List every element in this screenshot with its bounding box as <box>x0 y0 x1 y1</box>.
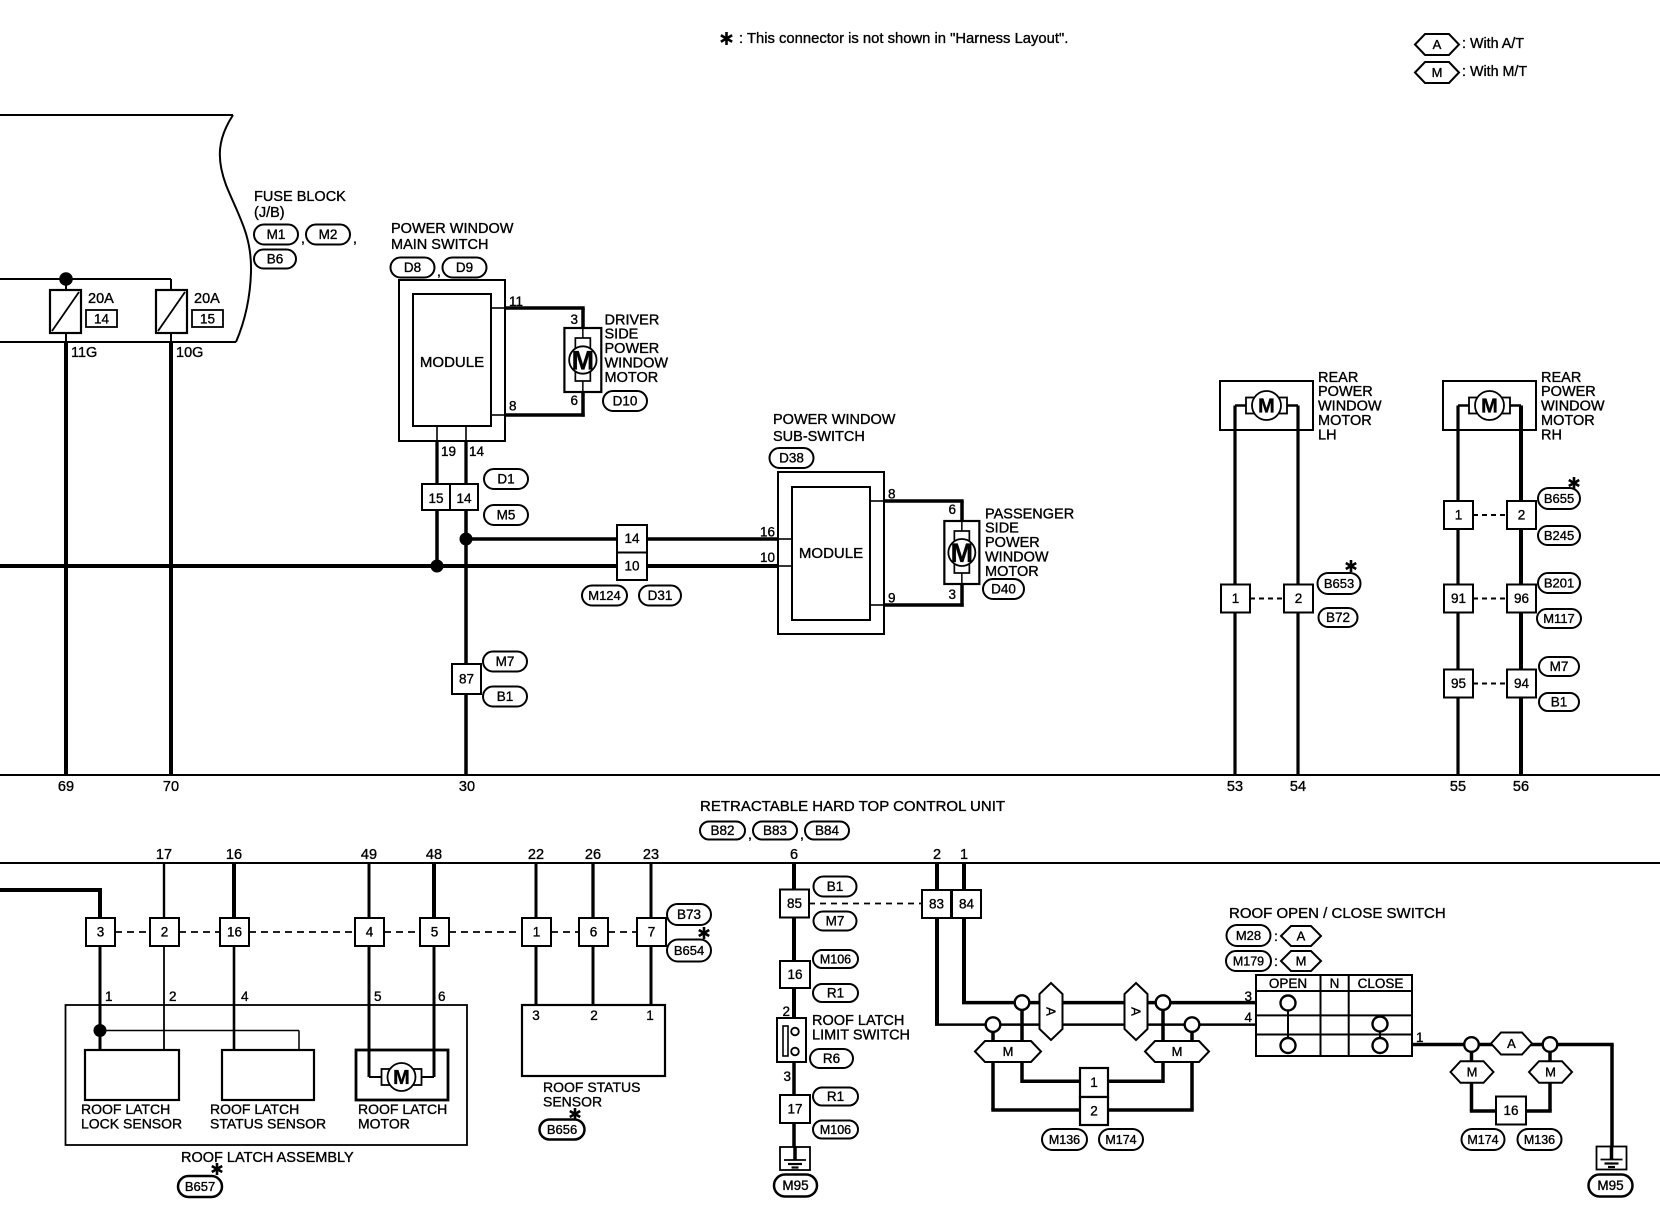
svg-text:B83: B83 <box>763 823 787 838</box>
svg-text:ROOF LATCH ASSEMBLY: ROOF LATCH ASSEMBLY <box>181 1150 354 1166</box>
svg-text:R1: R1 <box>827 986 844 1001</box>
svg-text:D8: D8 <box>404 260 421 275</box>
svg-text:2: 2 <box>1518 508 1526 523</box>
svg-text:M7: M7 <box>826 914 845 929</box>
svg-text:M: M <box>1432 65 1443 80</box>
svg-text:1: 1 <box>1455 508 1463 523</box>
svg-text:N: N <box>1330 976 1340 991</box>
svg-text:M28: M28 <box>1236 928 1261 943</box>
svg-text:LIMIT SWITCH: LIMIT SWITCH <box>812 1028 910 1044</box>
svg-text:M: M <box>1467 1065 1478 1080</box>
svg-text:1: 1 <box>1232 591 1240 606</box>
svg-text:6: 6 <box>438 989 446 1004</box>
svg-text:M: M <box>393 1067 410 1089</box>
svg-text:5: 5 <box>431 925 439 940</box>
svg-text:,: , <box>353 230 357 246</box>
svg-text:2: 2 <box>169 989 177 1004</box>
svg-text:M: M <box>1003 1044 1014 1059</box>
svg-text:M136: M136 <box>1524 1133 1555 1147</box>
svg-text:RH: RH <box>1541 427 1562 443</box>
svg-text:95: 95 <box>1451 676 1466 691</box>
svg-text:23: 23 <box>643 847 659 863</box>
svg-text:15: 15 <box>428 491 443 506</box>
svg-text:17: 17 <box>787 1102 802 1117</box>
svg-text:30: 30 <box>459 779 475 795</box>
svg-text:14: 14 <box>94 312 110 327</box>
svg-text:20A: 20A <box>194 291 220 307</box>
svg-text:4: 4 <box>241 989 249 1004</box>
svg-text:M: M <box>1258 396 1275 418</box>
svg-text:16: 16 <box>760 525 775 540</box>
svg-text:ROOF OPEN / CLOSE SWITCH: ROOF OPEN / CLOSE SWITCH <box>1229 905 1446 922</box>
svg-text:A: A <box>1297 929 1306 944</box>
svg-text:M2: M2 <box>319 227 338 242</box>
svg-text:M95: M95 <box>1597 1178 1623 1193</box>
svg-text:LH: LH <box>1318 427 1337 443</box>
svg-text:M: M <box>1172 1044 1183 1059</box>
svg-text:6: 6 <box>948 502 956 517</box>
svg-text:49: 49 <box>361 847 377 863</box>
svg-text:M174: M174 <box>1105 1133 1136 1147</box>
svg-text:MAIN SWITCH: MAIN SWITCH <box>391 237 488 253</box>
svg-text:2: 2 <box>1295 591 1303 606</box>
svg-text:26: 26 <box>585 847 601 863</box>
svg-text:POWER WINDOW: POWER WINDOW <box>391 221 514 237</box>
svg-text:B654: B654 <box>674 943 704 958</box>
svg-text:D38: D38 <box>779 451 804 466</box>
svg-text:16: 16 <box>226 847 242 863</box>
svg-text:10: 10 <box>760 550 775 565</box>
svg-text:LOCK SENSOR: LOCK SENSOR <box>81 1116 182 1132</box>
svg-text:A: A <box>1043 1007 1058 1016</box>
svg-text:1: 1 <box>960 847 968 863</box>
svg-text:1: 1 <box>1090 1075 1098 1090</box>
svg-text:POWER WINDOW: POWER WINDOW <box>773 412 896 428</box>
svg-text:8: 8 <box>509 399 517 414</box>
svg-text:D1: D1 <box>497 472 514 487</box>
svg-text:ROOF LATCH: ROOF LATCH <box>358 1101 447 1117</box>
svg-text:1: 1 <box>533 925 541 940</box>
svg-text:CLOSE: CLOSE <box>1358 976 1404 991</box>
svg-text:R6: R6 <box>823 1051 840 1066</box>
svg-text:STATUS SENSOR: STATUS SENSOR <box>210 1116 326 1132</box>
svg-text:M: M <box>951 538 974 568</box>
svg-text:M7: M7 <box>496 654 515 669</box>
svg-text:17: 17 <box>156 847 172 863</box>
svg-text:M174: M174 <box>1467 1133 1498 1147</box>
svg-text:11G: 11G <box>71 345 97 361</box>
svg-text:(J/B): (J/B) <box>254 205 285 221</box>
svg-text:6: 6 <box>590 925 598 940</box>
svg-text::: : <box>1274 953 1278 969</box>
svg-text:M179: M179 <box>1233 954 1264 968</box>
svg-text:,: , <box>301 230 305 246</box>
svg-text:M124: M124 <box>588 588 621 603</box>
svg-text:B656: B656 <box>547 1122 577 1137</box>
svg-text:B73: B73 <box>677 907 701 922</box>
svg-text:SENSOR: SENSOR <box>543 1094 602 1110</box>
svg-text:B72: B72 <box>1326 610 1350 625</box>
svg-text:A: A <box>1128 1007 1143 1016</box>
svg-text:D31: D31 <box>648 588 673 603</box>
svg-text:MODULE: MODULE <box>420 354 484 371</box>
svg-text:D40: D40 <box>991 582 1016 597</box>
svg-text:85: 85 <box>787 896 802 911</box>
svg-text:1: 1 <box>105 989 113 1004</box>
svg-text:14: 14 <box>624 531 640 546</box>
svg-text:FUSE BLOCK: FUSE BLOCK <box>254 189 346 205</box>
svg-text:3: 3 <box>1244 989 1252 1004</box>
svg-text:M: M <box>572 346 595 376</box>
svg-text:B82: B82 <box>710 823 734 838</box>
svg-text:4: 4 <box>366 925 374 940</box>
svg-text:2: 2 <box>1090 1104 1098 1119</box>
svg-text:5: 5 <box>374 989 382 1004</box>
svg-text:B245: B245 <box>1544 528 1574 543</box>
svg-text:A: A <box>1507 1036 1516 1051</box>
svg-text:70: 70 <box>163 779 179 795</box>
svg-text:B201: B201 <box>1544 576 1574 591</box>
svg-text:2: 2 <box>161 925 169 940</box>
svg-text:MOTOR: MOTOR <box>605 370 659 386</box>
svg-text:84: 84 <box>959 897 975 912</box>
svg-text:M136: M136 <box>1049 1133 1080 1147</box>
svg-text:D10: D10 <box>613 394 638 409</box>
svg-text:16: 16 <box>1503 1103 1518 1118</box>
svg-text:MODULE: MODULE <box>799 545 863 562</box>
svg-text:1: 1 <box>646 1008 654 1023</box>
svg-text:: This connector is not shown: : This connector is not shown in "Harnes… <box>739 31 1068 47</box>
svg-text:A: A <box>1433 37 1442 52</box>
svg-text:R1: R1 <box>827 1089 844 1104</box>
svg-text:,: , <box>748 826 752 842</box>
svg-text:96: 96 <box>1514 591 1529 606</box>
svg-text:ROOF LATCH: ROOF LATCH <box>210 1101 299 1117</box>
svg-text:53: 53 <box>1227 779 1243 795</box>
svg-text:B653: B653 <box>1324 576 1354 591</box>
svg-text:19: 19 <box>441 444 456 459</box>
svg-text:14: 14 <box>456 491 472 506</box>
svg-text:3: 3 <box>97 925 105 940</box>
svg-text:M: M <box>1545 1065 1556 1080</box>
svg-text:69: 69 <box>58 779 74 795</box>
svg-text:M1: M1 <box>267 227 286 242</box>
svg-text:M106: M106 <box>820 1123 851 1137</box>
svg-text:8: 8 <box>888 487 896 502</box>
svg-text:15: 15 <box>200 312 215 327</box>
svg-text:ROOF STATUS: ROOF STATUS <box>543 1079 640 1095</box>
svg-text:RETRACTABLE HARD TOP CONTROL U: RETRACTABLE HARD TOP CONTROL UNIT <box>700 798 1005 815</box>
svg-text:6: 6 <box>790 847 798 863</box>
svg-text:M5: M5 <box>497 508 516 523</box>
svg-text:,: , <box>800 826 804 842</box>
svg-text:87: 87 <box>459 672 474 687</box>
svg-text:B1: B1 <box>497 689 514 704</box>
svg-text:B6: B6 <box>267 252 284 267</box>
svg-text:M95: M95 <box>782 1178 808 1193</box>
svg-text:55: 55 <box>1450 779 1466 795</box>
svg-text:10G: 10G <box>176 345 203 361</box>
svg-text:2: 2 <box>590 1008 598 1023</box>
svg-text:OPEN: OPEN <box>1269 976 1307 991</box>
svg-text:: With M/T: : With M/T <box>1462 64 1527 80</box>
svg-text:9: 9 <box>888 591 896 606</box>
svg-text:3: 3 <box>532 1008 540 1023</box>
svg-text:SUB-SWITCH: SUB-SWITCH <box>773 429 865 445</box>
svg-text:MOTOR: MOTOR <box>358 1116 410 1132</box>
svg-text:16: 16 <box>787 967 802 982</box>
svg-text:94: 94 <box>1514 676 1530 691</box>
svg-text:B1: B1 <box>1551 695 1568 710</box>
svg-text:3: 3 <box>783 1069 791 1084</box>
svg-text:B657: B657 <box>185 1179 215 1194</box>
svg-text:10: 10 <box>624 559 639 574</box>
svg-text:16: 16 <box>227 925 242 940</box>
svg-text:D9: D9 <box>456 260 473 275</box>
svg-text:M: M <box>1481 396 1498 418</box>
svg-text:91: 91 <box>1451 591 1466 606</box>
svg-text:3: 3 <box>948 587 956 602</box>
svg-text:2: 2 <box>933 847 941 863</box>
svg-text:3: 3 <box>570 312 578 327</box>
svg-text:M7: M7 <box>1550 659 1569 674</box>
svg-text:6: 6 <box>570 393 578 408</box>
svg-text:22: 22 <box>528 847 544 863</box>
svg-text:83: 83 <box>929 897 944 912</box>
svg-text:48: 48 <box>426 847 442 863</box>
svg-text:B84: B84 <box>815 823 840 838</box>
svg-text:,: , <box>437 263 441 279</box>
svg-text:M106: M106 <box>820 952 851 966</box>
svg-text:: With A/T: : With A/T <box>1462 36 1524 52</box>
svg-text:14: 14 <box>469 444 485 459</box>
svg-text:56: 56 <box>1513 779 1529 795</box>
svg-text:4: 4 <box>1244 1010 1252 1025</box>
svg-text:7: 7 <box>648 925 656 940</box>
svg-text::: : <box>1274 928 1278 944</box>
svg-text:ROOF LATCH: ROOF LATCH <box>81 1101 170 1117</box>
svg-text:M117: M117 <box>1543 611 1575 626</box>
svg-text:2: 2 <box>782 1004 790 1019</box>
svg-text:B655: B655 <box>1544 491 1574 506</box>
svg-text:B1: B1 <box>827 879 844 894</box>
svg-text:54: 54 <box>1290 779 1306 795</box>
svg-text:M: M <box>1296 954 1307 969</box>
svg-text:MOTOR: MOTOR <box>985 564 1039 580</box>
svg-text:20A: 20A <box>88 291 114 307</box>
